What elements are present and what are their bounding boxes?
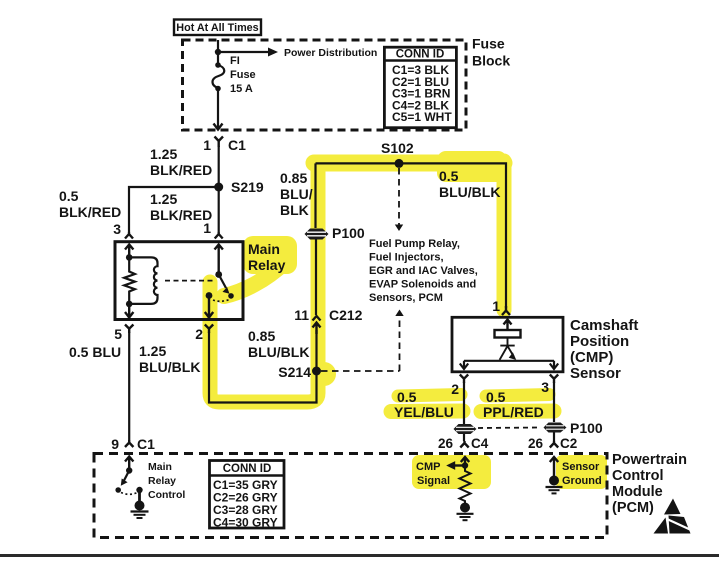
svg-text:C5=1 WHT: C5=1 WHT [392,110,452,124]
wire: S102 horizontal [316,163,507,308]
Main Relay label [248,241,286,273]
node: coil top junction [126,254,133,261]
label 1.25 BLK/RED lower [150,191,212,223]
relay switch output contact [206,292,213,299]
label 0.5 PPL/RED [483,389,544,420]
sensor internal rail with down arrows [460,361,558,369]
node: junction dot to Power Distribution [215,49,221,55]
svg-text:2: 2 [451,381,459,397]
svg-text:BLU/BLK: BLU/BLK [248,344,309,360]
label 0.5 BLK/RED far left [59,188,121,220]
svg-text:C1: C1 [137,436,155,452]
svg-text:EGR and IAC Valves,: EGR and IAC Valves, [369,265,478,277]
svg-text:Fuel Pump Relay,: Fuel Pump Relay, [369,238,460,250]
wire: relay pin 5 down to PCM 9 C1 [128,332,130,440]
label 0.5 YEL/BLU [394,389,454,420]
sensor internal arrow up [504,320,512,331]
highlighter: PPL/RED label [481,395,554,412]
svg-text:1: 1 [203,137,211,153]
svg-text:1.25: 1.25 [150,191,177,207]
wire: C4 down to PCM [463,434,465,441]
svg-text:3: 3 [541,379,549,395]
pin 9 label [111,436,119,452]
dashed link C4 to C2 [478,427,541,430]
pin 3 label sensor [541,379,549,395]
svg-text:BLU/BLK: BLU/BLK [139,359,200,375]
Power Distribution label [284,47,377,59]
CMP Signal label [416,461,450,487]
26 C4 labels [438,436,489,451]
svg-text:1: 1 [203,220,211,236]
svg-text:FI: FI [230,55,240,67]
svg-text:Module: Module [612,484,663,500]
svg-text:EVAP Solenoids and: EVAP Solenoids and [369,279,476,291]
Fuse Block label [472,36,510,69]
svg-text:C212: C212 [329,307,363,323]
wire: S219 branch left and down [129,187,219,232]
svg-text:0.5: 0.5 [439,168,459,184]
PCM sensor ground arrow up [550,457,558,477]
svg-text:P100: P100 [570,420,603,436]
Hot At All Times label box [174,20,261,36]
svg-text:CONN ID: CONN ID [396,49,445,61]
svg-text:(PCM): (PCM) [612,500,654,516]
svg-text:0.5: 0.5 [486,389,506,405]
switch pivot dot [126,467,132,473]
svg-text:1: 1 [492,298,500,314]
CONN ID box PCM [210,461,285,530]
svg-text:Control: Control [148,489,185,501]
sensor pin 3 fork [550,375,558,384]
pin 3 label [113,221,121,237]
wire: middle column from corner down to P100 [314,163,316,228]
connector P100 inline [305,229,329,240]
svg-text:S219: S219 [231,179,264,195]
P100 label [332,225,365,241]
svg-text:Relay: Relay [148,475,176,487]
node S219 [214,179,264,195]
label 1.25 BLU/BLK [139,343,200,375]
highlighter: top-right bulge [437,151,507,182]
ESD warning symbol [654,499,692,534]
pin 2 label [195,326,203,342]
svg-text:Signal: Signal [417,475,450,487]
svg-text:1.25: 1.25 [150,146,177,162]
svg-text:Powertrain: Powertrain [612,452,687,468]
relay pin 3 fork [125,232,133,239]
26 C2 labels [528,436,577,451]
main relay box [115,242,243,320]
P100 label right [570,420,603,436]
svg-text:Fuse: Fuse [230,69,256,81]
label 0.85 BLU/BLK middle [248,328,309,360]
label 0.5 BLU/BLK right [439,168,500,200]
label 0.5 BLU [69,344,121,360]
Camshaft Position (CMP) Sensor label [570,317,638,382]
switch blade [115,471,129,493]
wire: sensor pin 3 down to C2 [553,382,555,422]
relay coil branch arrow up [125,245,133,258]
highlighter: right vertical wire to CMP pin 1 [497,161,512,310]
svg-text:Main: Main [148,461,172,473]
bottom rule [0,554,719,557]
PCM main relay control switch arrow [125,457,133,471]
svg-text:0.5: 0.5 [59,188,79,204]
wire: sensor pin 2 down to C4 [463,382,465,424]
wire: C1 down to S219 [218,146,220,187]
svg-text:Main: Main [248,241,280,257]
ground: CMP signal [457,503,474,521]
svg-text:Position: Position [570,333,629,350]
switch dotted link [121,493,137,495]
wire: coil to bottom edge arrow [125,304,133,318]
resistor inside relay [124,257,135,304]
PCM CMP signal arrow up [461,457,469,465]
svg-text:0.85: 0.85 [280,170,307,186]
svg-text:BLU/BLK: BLU/BLK [439,184,500,200]
node S214 [278,364,321,380]
highlighter: S214 bulge [312,362,336,386]
svg-text:BLK/RED: BLK/RED [150,162,212,178]
highlighter: Main Relay label blob [224,236,297,296]
wire: relay pin 2 down right and up to S214 [209,332,317,403]
Powertrain Control Module (PCM) label [612,452,687,516]
PCM C4 fork [460,441,468,448]
fuse FI 15A symbol [213,62,225,91]
ground: main relay control [131,490,149,518]
node: coil bottom junction [126,301,133,308]
powertrain control module dashed box [94,454,607,538]
svg-text:15 A: 15 A [230,83,253,95]
PCM C2 fork [550,441,558,448]
svg-text:(CMP): (CMP) [570,349,613,366]
svg-text:Sensors, PCM: Sensors, PCM [369,292,443,304]
svg-text:Fuse: Fuse [472,36,505,52]
wire: P100 down to C212 [315,240,317,316]
wire: C2 down to PCM [553,433,555,442]
relay pin 2 fork [205,325,213,334]
svg-text:CONN ID: CONN ID [223,463,272,475]
highlighter: Sensor Ground label [556,455,607,489]
svg-text:11: 11 [294,307,309,323]
connector C212 arrow [313,323,321,335]
relay pin 1 fork [215,232,223,239]
connector C1 pin 1 fork [215,137,224,148]
wire: fuse output down to C1 [214,89,223,130]
switch contact dot [136,487,142,493]
svg-text:Relay: Relay [248,257,286,273]
sensor internal splitter [500,338,517,361]
svg-text:Fuel Injectors,: Fuel Injectors, [369,252,444,264]
svg-text:BLK/RED: BLK/RED [59,204,121,220]
svg-text:S214: S214 [278,364,311,380]
pin 2 label sensor [451,381,459,397]
resistor: CMP pull [460,466,471,504]
Main Relay Control label [148,461,185,501]
highlighter: S102 horizontal wire [314,155,504,172]
fuse block dashed box [183,40,467,130]
svg-text:C1: C1 [228,137,246,153]
svg-text:YEL/BLU: YEL/BLU [394,404,454,420]
sensor pin 2 fork [460,375,468,384]
svg-text:Camshaft: Camshaft [570,317,638,334]
connector C4 inline [454,424,477,434]
relay pin 5 fork [125,325,133,334]
ground: sensor ground [546,476,563,494]
dashed link coil to switch [165,280,216,282]
svg-text:9: 9 [111,436,119,452]
svg-text:0.5 BLU: 0.5 BLU [69,344,121,360]
svg-text:C4: C4 [471,436,489,451]
dashed: S102 down arrow to loads [395,168,403,231]
CONN ID box fuse block [384,47,456,128]
svg-text:CMP: CMP [416,461,440,473]
wire: 9 C1 fork at PCM [125,440,133,447]
pin 11 label [294,307,309,323]
svg-text:Hot At All Times: Hot At All Times [176,22,258,34]
node: CMP signal junction [462,462,468,468]
svg-text:0.5: 0.5 [397,389,417,405]
CMP signal left arrow [446,461,465,470]
relay switch travel arc dotted [213,300,229,302]
svg-text:Control: Control [612,468,664,484]
svg-text:Sensor: Sensor [562,461,600,473]
pin 1 label sensor [492,298,500,314]
svg-text:Block: Block [472,53,510,69]
svg-text:Ground: Ground [562,475,602,487]
svg-text:5: 5 [114,326,122,342]
connector C2 inline [544,423,567,433]
C212 label [329,307,363,323]
relay coil [131,257,158,304]
sensor element rectangle [495,330,521,338]
svg-text:PPL/RED: PPL/RED [483,404,544,420]
highlighter: YEL/BLU label [391,395,463,412]
svg-text:1.25: 1.25 [139,343,166,359]
svg-text:C4=30 GRY: C4=30 GRY [213,516,278,530]
loads text block [369,238,478,304]
highlighter: CMP Signal label [412,455,491,489]
relay switch blade [219,275,234,299]
relay switch pivot [215,271,222,278]
svg-text:Sensor: Sensor [570,365,621,382]
svg-text:2: 2 [195,326,203,342]
node S102 [381,140,414,168]
relay switch common arrow [215,245,223,275]
svg-text:26: 26 [438,436,454,451]
svg-text:BLU/: BLU/ [280,186,313,202]
wire: battery feed into fuse [217,40,219,64]
svg-text:C2: C2 [560,436,577,451]
Sensor Ground label [562,461,602,487]
svg-text:BLK: BLK [280,202,309,218]
CMP sensor pin 1 fork [502,306,510,315]
wire: S219 down to relay pin 1 [218,187,220,232]
wire: switch output to bottom edge arrow [205,296,213,318]
pin 1 label [203,137,211,153]
wire: C212 down to S214 [315,330,317,371]
highlighter: relay pin2 to S214 path [210,166,318,402]
connector C212 fork [313,316,321,321]
svg-text:0.85: 0.85 [248,328,275,344]
pin 5 label [114,326,122,342]
C1 label [228,137,246,153]
svg-text:P100: P100 [332,225,365,241]
svg-text:3: 3 [113,221,121,237]
pin 1 label relay [203,220,211,236]
C1 label PCM [137,436,155,452]
svg-text:S102: S102 [381,140,414,156]
svg-text:Power Distribution: Power Distribution [284,47,377,59]
camshaft position sensor box [452,317,563,372]
svg-text:26: 26 [528,436,544,451]
FI Fuse 15 A label [230,55,256,95]
wire: arrow to Power Distribution [218,48,278,57]
dashed: S214 to loads arrow up [321,310,404,372]
label 0.85 BLU/BLK upper middle [280,170,313,218]
label 1.25 BLK/RED upper [150,146,212,178]
